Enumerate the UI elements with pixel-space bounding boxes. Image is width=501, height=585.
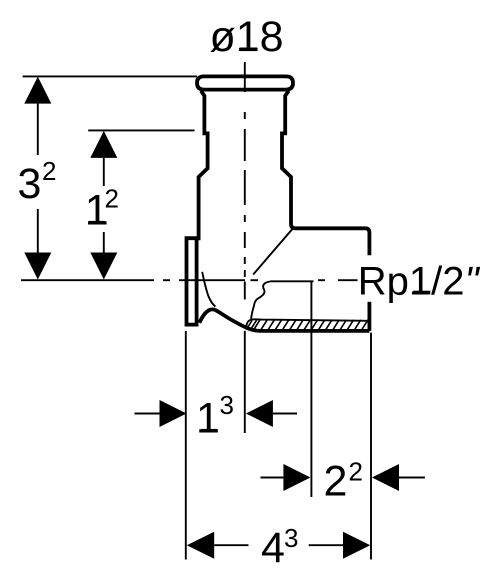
internal cone diagonal <box>253 229 292 275</box>
svg-text:3: 3 <box>284 523 298 553</box>
hatch band top line <box>252 319 370 320</box>
svg-text:3: 3 <box>18 160 42 208</box>
inner bore curve <box>202 272 215 307</box>
dim 1^3 <box>135 390 298 442</box>
extension line top (fitting top, y=76.4) <box>23 75 197 77</box>
svg-text:2: 2 <box>324 458 348 506</box>
vertical center line (socket axis) <box>244 62 246 300</box>
hatching <box>248 320 368 330</box>
horizontal center line (outlet axis) <box>21 279 358 281</box>
press socket bead <box>197 76 293 89</box>
socket left profile <box>199 91 208 240</box>
dim text ø18 <box>210 13 284 61</box>
svg-text:3: 3 <box>220 390 234 420</box>
dim 2^2 <box>261 457 425 506</box>
svg-text:4: 4 <box>261 524 285 572</box>
svg-text:2: 2 <box>105 184 119 214</box>
elbow outer bottom curve <box>199 309 369 331</box>
break squiggle <box>251 282 270 319</box>
thread end line / extension for dim 2 <box>310 281 312 497</box>
dim 1^2 <box>85 131 119 280</box>
dim 4^3 <box>187 523 370 572</box>
text Rp1/2" <box>358 259 481 303</box>
hatch band left closure <box>246 320 251 327</box>
bottom extension lines <box>186 331 371 560</box>
outlet right wall lower part <box>367 302 371 331</box>
svg-text:Rp1/2": Rp1/2" <box>358 259 481 303</box>
socket right profile <box>282 91 369 255</box>
dim 3^2 <box>18 77 57 280</box>
svg-text:2: 2 <box>42 156 56 186</box>
section boundary line at axis <box>270 280 314 282</box>
extension line press depth (y=130.4) <box>88 129 194 131</box>
svg-text:2: 2 <box>349 457 363 487</box>
svg-text:1: 1 <box>196 394 220 442</box>
svg-text:ø18: ø18 <box>210 13 284 61</box>
flange (left port) <box>187 238 197 324</box>
